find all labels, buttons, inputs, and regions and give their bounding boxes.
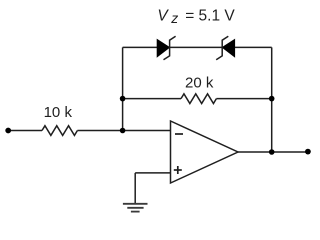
wire: non-inverting input to ground stem xyxy=(135,173,170,204)
op-amp U1 triangle xyxy=(171,121,239,183)
wire: output from op-amp apex to right terminal xyxy=(238,151,308,153)
node: left 20k junction xyxy=(120,96,126,102)
zener diode D2 (anode right, cathode left) xyxy=(216,36,234,60)
svg-text:10 k: 10 k xyxy=(44,104,73,121)
zener diode D1 (anode left, cathode right) xyxy=(157,36,175,60)
output terminal node xyxy=(305,149,311,155)
label: 10 k value xyxy=(44,104,73,121)
ground symbol xyxy=(123,204,148,212)
node: inverting input junction xyxy=(120,128,126,134)
wire: 20k branch right segment xyxy=(216,98,271,100)
node: output junction xyxy=(269,149,275,155)
wire: 10k resistor to inverting input xyxy=(77,130,170,132)
label: 20 k value xyxy=(185,74,214,91)
svg-text:20 k: 20 k xyxy=(185,74,214,91)
wire: zener branch (top horizontal) xyxy=(123,46,272,48)
op-amp non-inverting input symbol (plus) xyxy=(174,166,182,174)
resistor R2 20 k xyxy=(181,94,216,104)
node: right 20k junction xyxy=(269,96,275,102)
svg-text:z: z xyxy=(170,10,178,26)
svg-text:V: V xyxy=(157,8,169,25)
label: Vz = 5.1 V xyxy=(157,8,235,26)
resistor R1 10 k xyxy=(42,126,77,136)
svg-text:= 5.1 V: = 5.1 V xyxy=(185,8,235,25)
input terminal node xyxy=(5,128,11,134)
op-amp inverting input symbol (minus) xyxy=(175,133,183,135)
wire: right feedback rail (vertical) xyxy=(271,47,273,152)
wire: 20k branch left segment xyxy=(123,98,181,100)
wire: input from left terminal to 10k resistor xyxy=(8,130,42,132)
wire: left feedback rail (vertical) xyxy=(122,47,124,130)
